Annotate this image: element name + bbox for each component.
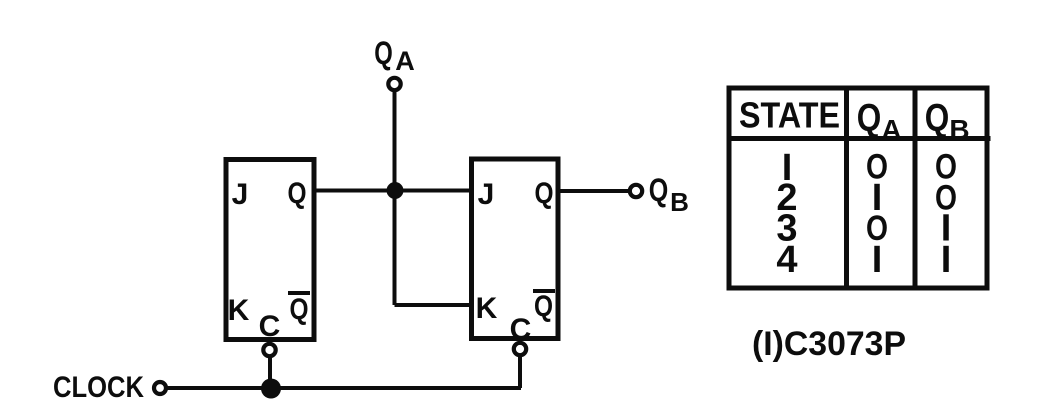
svg-text:J: J: [232, 178, 249, 211]
svg-text:Q: Q: [857, 97, 882, 140]
svg-text:O: O: [935, 179, 957, 218]
svg-text:A: A: [881, 114, 901, 145]
svg-text:Q: Q: [535, 177, 554, 210]
svg-text:O: O: [866, 148, 888, 187]
svg-text:Q: Q: [534, 290, 553, 323]
svg-text:CLOCK: CLOCK: [53, 371, 144, 404]
svg-text:Q: Q: [649, 172, 669, 208]
svg-text:A: A: [395, 46, 415, 76]
svg-text:K: K: [228, 294, 250, 327]
svg-text:4: 4: [776, 239, 797, 281]
svg-text:I: I: [941, 239, 952, 281]
svg-text:(I)C3073P: (I)C3073P: [752, 325, 906, 363]
svg-text:Q: Q: [290, 293, 309, 326]
svg-text:Q: Q: [288, 177, 307, 210]
svg-text:K: K: [476, 292, 498, 325]
svg-text:STATE: STATE: [739, 95, 840, 136]
svg-text:O: O: [866, 209, 888, 248]
svg-text:B: B: [670, 187, 689, 217]
svg-text:Q: Q: [374, 35, 393, 71]
svg-text:B: B: [949, 114, 969, 145]
svg-text:Q: Q: [925, 97, 950, 140]
svg-text:J: J: [478, 178, 495, 211]
svg-text:C: C: [510, 313, 532, 346]
svg-text:C: C: [259, 310, 281, 343]
